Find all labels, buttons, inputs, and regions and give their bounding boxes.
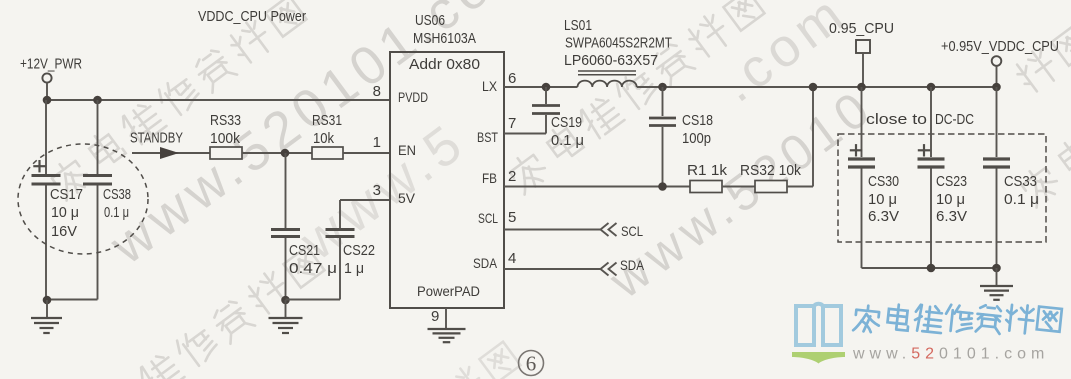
page number circle 6 — [519, 351, 544, 376]
svg-text:10 μ: 10 μ — [868, 191, 897, 208]
node junction CS23 top — [927, 83, 936, 92]
dashed box close to DC-DC — [838, 134, 1046, 242]
svg-text:close to: close to — [866, 111, 927, 128]
dashed ellipse around CS17 CS38 — [18, 144, 148, 254]
svg-text:100k: 100k — [210, 130, 240, 147]
capacitor CS33 — [996, 87, 998, 157]
svg-text:www.520101.com: www.520101.com — [852, 346, 1049, 363]
test point 0.95_CPU — [856, 40, 870, 53]
node junction testpoint — [857, 83, 866, 92]
logo book icon — [796, 304, 841, 345]
svg-text:R1 1k: R1 1k — [687, 162, 728, 179]
svg-text:www.52010: www.52010 — [598, 78, 883, 309]
watermark stripe5 www.52010 right — [598, 78, 883, 309]
svg-text:MSH6103A: MSH6103A — [413, 30, 476, 47]
svg-text:16V: 16V — [51, 223, 77, 240]
svg-text:VDDC_CPU Power: VDDC_CPU Power — [198, 8, 306, 25]
svg-text:100p: 100p — [682, 130, 711, 147]
arrow chevron SCL — [601, 223, 617, 236]
wire R1-RS32 — [722, 186, 755, 188]
svg-text:SDA: SDA — [473, 255, 498, 271]
watermark stripe2 www.520101.com left — [99, 0, 546, 276]
svg-text:3: 3 — [373, 182, 381, 199]
resistor RS33 — [210, 147, 242, 159]
watermark stripe3 latin tail — [289, 111, 477, 272]
svg-text:LS01: LS01 — [564, 17, 592, 34]
resistor RS32 — [755, 181, 787, 193]
wire RS33-junction — [242, 152, 312, 154]
wire FB — [504, 186, 690, 188]
svg-text:RS33: RS33 — [210, 112, 241, 129]
svg-text:0.1 μ: 0.1 μ — [104, 204, 129, 221]
svg-text:6.3V: 6.3V — [868, 208, 899, 225]
wire SDA — [504, 268, 601, 270]
node junction CS21-CS22 ground — [281, 296, 290, 305]
svg-text:FB: FB — [482, 170, 497, 186]
op-amp U1 : IC US06 MSH6103A body — [390, 52, 504, 308]
svg-text:9: 9 — [431, 308, 439, 325]
svg-text:LP6060-63X57: LP6060-63X57 — [564, 52, 658, 69]
capacitor CS30 — [861, 87, 863, 157]
node junction output terminal — [992, 83, 1001, 92]
watermark stripe5 cjk tail bottom — [406, 342, 521, 379]
capacitor CS17 — [45, 100, 47, 174]
svg-text:SCL: SCL — [478, 210, 498, 226]
node junction CS17-CS38 ground — [43, 296, 52, 305]
terminal +0.95V_VDDC_CPU — [992, 56, 1002, 66]
svg-text:6: 6 — [508, 70, 516, 87]
wire +12V stem — [46, 83, 48, 100]
node junction CS33 bottom — [992, 264, 1001, 273]
svg-text:6: 6 — [526, 352, 537, 376]
ground G3 — [428, 328, 466, 330]
watermark stripe7 cjk top-right corner — [1012, 25, 1071, 96]
watermark stripe1 cjk top-left — [47, 0, 307, 201]
wire EN input — [132, 152, 210, 154]
svg-text:1 μ: 1 μ — [344, 260, 364, 277]
inductor LS01 — [578, 81, 637, 87]
watermark stripe6 cjk right edge — [1017, 106, 1071, 207]
node junction FB-CS18 — [658, 182, 667, 191]
wire 5V pin to CS22 — [340, 199, 390, 201]
svg-text:BST: BST — [477, 129, 498, 145]
capacitor CS23 — [930, 87, 932, 157]
wire RS31-EN — [343, 152, 390, 154]
svg-text:CS33: CS33 — [1004, 173, 1037, 190]
svg-text:5: 5 — [508, 209, 516, 226]
svg-text:0.47 μ: 0.47 μ — [289, 260, 337, 277]
svg-text:PowerPAD: PowerPAD — [417, 283, 480, 299]
svg-text:5V: 5V — [398, 190, 416, 206]
arrow signal direction — [160, 147, 179, 159]
svg-text:SDA: SDA — [620, 257, 645, 273]
resistor RS31 — [312, 147, 343, 159]
svg-text:0.1 μ: 0.1 μ — [1004, 191, 1039, 208]
capacitor CS22 — [326, 228, 355, 231]
watermark stripe4 cjk top-right — [505, 0, 765, 195]
logo green swoosh — [792, 352, 845, 364]
terminal +12V_PWR — [42, 73, 51, 82]
wire junction to CS21 — [285, 153, 287, 228]
watermark stripe3 cjk bottom-left — [137, 247, 325, 379]
label LS01 double underline — [578, 70, 636, 72]
node junction CS23 bottom — [927, 264, 936, 273]
svg-text:CS23: CS23 — [936, 173, 967, 190]
node junction EN divider — [281, 149, 290, 158]
resistor R1 — [690, 181, 722, 193]
svg-text:STANDBY: STANDBY — [130, 131, 183, 147]
wire top rail PVDD — [47, 99, 390, 101]
svg-text:+12V_PWR: +12V_PWR — [20, 57, 82, 73]
node junction LX-CS18 — [658, 83, 667, 92]
svg-text:4: 4 — [508, 250, 516, 267]
capacitor CS19 — [545, 87, 547, 104]
wire LX to inductor — [504, 86, 578, 88]
svg-text:CS30: CS30 — [868, 173, 899, 190]
svg-text:0.1 μ: 0.1 μ — [551, 132, 584, 149]
svg-text:10 μ: 10 μ — [936, 191, 965, 208]
svg-text:10 μ: 10 μ — [51, 204, 79, 221]
wire LX output rail — [637, 86, 997, 88]
capacitor CS38 — [97, 100, 99, 174]
svg-text:CS18: CS18 — [682, 112, 713, 129]
svg-text:CS21: CS21 — [289, 242, 320, 259]
svg-text:EN: EN — [398, 142, 416, 158]
node junction FB-output — [809, 83, 818, 92]
svg-text:PVDD: PVDD — [398, 89, 428, 105]
logo text 家电维修资料网 — [853, 303, 1062, 334]
arrow chevron SDA — [601, 263, 617, 276]
svg-text:6.3V: 6.3V — [936, 208, 967, 225]
svg-text:+0.95V_VDDC_CPU: +0.95V_VDDC_CPU — [941, 38, 1059, 55]
wire feedback riser — [787, 186, 813, 188]
capacitor CS21 — [271, 228, 300, 231]
svg-text:CS22: CS22 — [343, 242, 375, 259]
svg-text:LX: LX — [482, 78, 498, 94]
svg-text:SWPA6045S2R2MT: SWPA6045S2R2MT — [565, 36, 672, 52]
svg-text:CS19: CS19 — [551, 114, 582, 131]
ground G2 — [285, 300, 287, 318]
watermark stripe4 latin dotcom — [709, 0, 858, 114]
svg-text:SCL: SCL — [621, 223, 643, 239]
svg-text:DC-DC: DC-DC — [935, 111, 974, 128]
svg-text:0.95_CPU: 0.95_CPU — [829, 20, 894, 37]
svg-text:US06: US06 — [415, 12, 445, 29]
wire output ground rail — [862, 267, 997, 269]
svg-text:8: 8 — [373, 83, 381, 100]
svg-text:Addr 0x80: Addr 0x80 — [409, 56, 480, 73]
svg-text:CS17: CS17 — [50, 186, 83, 203]
svg-text:1: 1 — [373, 134, 381, 151]
svg-text:10k: 10k — [313, 130, 334, 147]
node junction 12V-CS17 — [43, 96, 52, 105]
svg-text:2: 2 — [508, 168, 516, 185]
node junction CS38 — [93, 96, 102, 105]
ground G1 — [46, 300, 48, 318]
wire SCL — [504, 229, 601, 231]
svg-text:RS31: RS31 — [312, 112, 342, 129]
svg-text:RS32 10k: RS32 10k — [740, 162, 801, 179]
node junction LX-CS19 — [542, 83, 551, 92]
svg-text:CS38: CS38 — [103, 186, 131, 203]
svg-text:7: 7 — [508, 115, 516, 132]
ground G4 — [996, 268, 998, 286]
capacitor CS18 — [662, 87, 664, 116]
pin 9 PowerPAD ground stem — [445, 308, 447, 329]
